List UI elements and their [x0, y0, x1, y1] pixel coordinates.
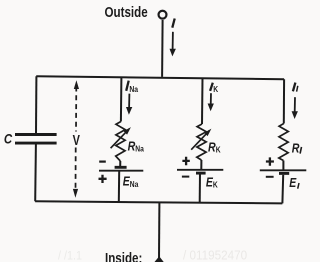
wire: left edge below capacitor	[34, 144, 37, 201]
label Inside (cut off at image bottom)	[105, 250, 142, 262]
label plus sign of E_K	[182, 157, 189, 165]
current label I (injected current)	[172, 19, 174, 28]
label plus sign of E_l	[266, 157, 274, 165]
label plus sign of E_Na	[99, 175, 107, 183]
wire: Na branch upper	[120, 77, 123, 121]
capacitor C top plate	[15, 133, 57, 136]
wire: Na branch lower	[118, 171, 120, 203]
svg-text:R: R	[292, 140, 300, 155]
label R_l	[292, 140, 300, 155]
wire: zigzag to battery E_K	[200, 160, 202, 170]
wire: box bottom to inside terminal	[158, 203, 160, 260]
svg-text:Outside: Outside	[105, 4, 148, 21]
svg-text:/ 011952470: / 011952470	[183, 248, 247, 262]
wire: zigzag to battery E_l	[282, 161, 284, 171]
terminal: outside electrode circle	[159, 11, 167, 19]
label R_Na	[128, 138, 145, 153]
arrow: injected current I downward	[172, 32, 174, 50]
label E_l	[289, 176, 297, 190]
resistor R_K (variable) zigzag	[197, 124, 207, 160]
arrow: membrane voltage V double-headed dashed	[75, 87, 77, 132]
label E_Na	[123, 175, 139, 189]
svg-text:E: E	[289, 176, 297, 190]
arrow: I_K current downward	[210, 93, 212, 104]
label E_K	[206, 175, 218, 189]
capacitor C bottom plate	[15, 142, 57, 145]
battery E_Na long thin plate (positive, bottom)	[99, 170, 143, 172]
label V	[73, 131, 80, 148]
svg-text:Na: Na	[129, 84, 138, 94]
battery E_l long thin plate (positive, top)	[260, 169, 307, 171]
wire: K branch upper	[201, 78, 204, 124]
svg-text:/ /1.1: / /1.1	[58, 250, 82, 262]
battery E_l short thick plate (negative, bottom)	[279, 172, 289, 175]
label C	[4, 130, 13, 146]
battery E_K long thin plate (positive, top)	[177, 169, 223, 171]
wire: L branch upper (right edge of box)	[283, 79, 285, 123]
label minus sign of E_l	[266, 176, 274, 178]
svg-text:V: V	[73, 131, 80, 148]
label Outside	[105, 4, 148, 21]
label I_K	[210, 83, 213, 91]
svg-text:C: C	[4, 130, 13, 146]
wire: left edge above capacitor	[35, 76, 37, 133]
resistor R_Na (variable) zigzag	[116, 122, 126, 162]
wire: L branch lower (right edge of box)	[281, 175, 284, 204]
wire: zigzag to battery E_Na	[119, 161, 121, 167]
battery E_K short thick plate (negative, bottom)	[196, 172, 206, 175]
battery E_Na short thick plate (negative, top)	[115, 166, 127, 169]
wire: K branch lower	[199, 173, 201, 203]
label R_K	[208, 139, 221, 154]
resistor R_l zigzag	[279, 124, 289, 161]
arrow through R_K (variable resistor)	[191, 130, 209, 149]
watermark faint digits	[58, 248, 247, 262]
svg-text:Inside:: Inside:	[105, 250, 142, 262]
label minus sign of E_K	[182, 176, 189, 178]
label I_Na	[126, 81, 129, 91]
wire: outside terminal to box top	[161, 20, 164, 77]
arrow: I_Na current downward	[128, 94, 130, 108]
wire: membrane box top edge	[36, 76, 284, 79]
arrow: I_l current downward	[294, 97, 296, 112]
label I_l	[293, 83, 296, 92]
svg-text:K: K	[213, 84, 218, 94]
label minus sign of E_Na	[99, 161, 106, 163]
wire: membrane box bottom edge	[35, 201, 282, 203]
arrow through R_Na (variable resistor)	[111, 129, 129, 148]
terminal: inside electrode (cut off at image bottom)	[154, 256, 164, 262]
